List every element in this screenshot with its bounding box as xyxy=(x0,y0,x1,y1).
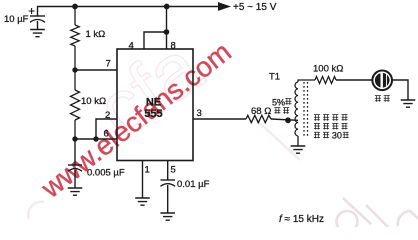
resistor R1 1k xyxy=(71,7,79,71)
ground (10uF) xyxy=(30,30,45,37)
wire pin 1 xyxy=(142,161,144,199)
ground (0.01uF) xyxy=(160,213,175,220)
svg-text:1: 1 xyxy=(145,165,150,176)
svg-text:8: 8 xyxy=(171,40,176,51)
wire top supply rail xyxy=(37,6,218,8)
wire resistor to lamp xyxy=(336,79,373,81)
svg-text:5: 5 xyxy=(171,165,176,176)
capacitor C1 10uF xyxy=(29,7,45,30)
svg-text:f ≈ 15 kHz: f ≈ 15 kHz xyxy=(279,214,324,225)
svg-text:0.01 µF: 0.01 µF xyxy=(177,179,210,190)
node supply drop junction xyxy=(164,4,170,10)
node pin2/6 loop junction xyxy=(93,136,98,141)
node supply/1k junction xyxy=(72,4,78,10)
capacitor C2 0.005uF xyxy=(68,139,82,188)
note pulse voltage 30x xyxy=(314,115,349,141)
svg-text:2: 2 xyxy=(105,110,110,121)
node strap/supply junction xyxy=(164,29,170,35)
wire pin 3 xyxy=(193,118,246,120)
svg-text:30: 30 xyxy=(332,130,342,140)
node tap junction xyxy=(285,117,291,123)
op-amp U1 NE555 xyxy=(117,49,193,161)
svg-text:+5 ~ 15 V: +5 ~ 15 V xyxy=(233,2,277,13)
lamp neon xyxy=(372,71,392,91)
wire pin 7 xyxy=(75,69,117,71)
resistor R4 100k xyxy=(315,77,336,84)
wire tap to transformer xyxy=(271,119,298,120)
power arrow +5~15V xyxy=(218,2,277,13)
resistor R2 10k xyxy=(71,70,80,139)
label neon lamp xyxy=(375,96,390,102)
wire supply drop to pin 8 xyxy=(166,7,168,33)
wire pin 2 loop xyxy=(96,119,117,139)
ground (pin 1) xyxy=(135,198,150,205)
svg-text:68 Ω: 68 Ω xyxy=(251,106,271,117)
capacitor C3 0.01uF xyxy=(161,161,176,214)
svg-text:555: 555 xyxy=(144,108,162,120)
svg-text:T1: T1 xyxy=(269,71,280,82)
svg-text:NE: NE xyxy=(146,97,161,109)
svg-text:10 µF: 10 µF xyxy=(4,14,29,25)
label 5% tap xyxy=(272,98,291,114)
resistor R3 68 ohm xyxy=(246,115,271,122)
svg-text:6: 6 xyxy=(104,129,109,140)
svg-text:10 kΩ: 10 kΩ xyxy=(81,96,106,107)
wire lamp to ground xyxy=(392,80,408,100)
svg-text:7: 7 xyxy=(106,59,111,70)
ground (T1) xyxy=(291,146,306,153)
svg-text:5%: 5% xyxy=(272,98,285,108)
ground (lamp) xyxy=(401,100,416,107)
node pin7 junction xyxy=(72,67,77,72)
svg-text:4: 4 xyxy=(129,40,134,51)
svg-text:3: 3 xyxy=(197,108,202,119)
ground (0.005uF) xyxy=(68,188,83,195)
svg-text:1 kΩ: 1 kΩ xyxy=(86,29,106,40)
svg-text:100 kΩ: 100 kΩ xyxy=(313,63,343,74)
wire pins 4-8 strap xyxy=(144,32,167,49)
node pin6 junction left xyxy=(72,136,77,141)
wire pin 6 xyxy=(75,138,117,140)
svg-text:0.005 µF: 0.005 µF xyxy=(87,168,125,179)
transformer T1 xyxy=(295,80,315,146)
watermark big outline corner shapes xyxy=(253,117,418,232)
